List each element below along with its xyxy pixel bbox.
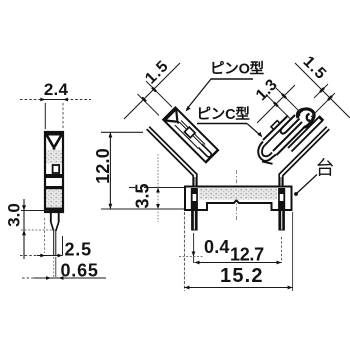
dim 3.0 extension at body bottom [21, 210, 50, 212]
right 1.5 extension lines [314, 84, 328, 98]
O-pin tail slot [198, 144, 212, 158]
pin body lower light section [46, 190, 62, 208]
pin body band 2 [45, 186, 64, 189]
O-pin latch box [184, 127, 195, 138]
pin body V notch [45, 133, 64, 136]
C-pin hook [258, 142, 276, 161]
right terminal inside body [278, 188, 285, 210]
body outline [185, 187, 292, 211]
O-pin internal channel lines [175, 125, 198, 148]
pin lower square section [50, 213, 52, 222]
svg-text:0.65: 0.65 [61, 261, 99, 281]
pin body band 1 [45, 174, 64, 178]
dim 12.0 extension bottom [101, 208, 185, 210]
svg-text:2.4: 2.4 [44, 80, 69, 99]
right 1.5 arrows [320, 88, 324, 92]
body edge dashed extensions down [44, 218, 46, 253]
C-pin neck U [281, 115, 300, 134]
dim 15.2 line [184, 287, 292, 289]
dim 3.5 extension top [144, 187, 184, 189]
svg-text:12.0: 12.0 [93, 148, 113, 184]
svg-text:0.4: 0.4 [204, 237, 230, 257]
dim 3.5 line (dotted, extends above) [157, 154, 159, 222]
left terminal inside body [191, 188, 198, 210]
left arm (outlined strip, bends 45deg up-left) [147, 129, 194, 187]
dim 2.4 arrows [40, 98, 45, 102]
blade inserted at top right [288, 117, 319, 148]
C-pin latch box [271, 121, 280, 130]
dim 3.0 line [23, 199, 25, 259]
svg-text:12.7: 12.7 [230, 245, 264, 265]
svg-text:2.5: 2.5 [65, 240, 92, 260]
svg-text:ピンC型: ピンC型 [197, 105, 251, 123]
left leg [191, 210, 198, 231]
svg-text:3.5: 3.5 [133, 183, 153, 208]
svg-text:15.2: 15.2 [220, 265, 264, 287]
1.3 dim line [257, 85, 295, 123]
svg-text:3.0: 3.0 [5, 203, 24, 227]
dim 3.0 extension dashed at taper [21, 229, 57, 231]
pin body small latch feature [53, 165, 60, 173]
O-pin mouth V notch [165, 116, 176, 127]
left 1.5: dim line [124, 63, 180, 119]
centerline [236, 170, 238, 220]
dim 12.0 line [109, 132, 111, 209]
O-pin tail end cap [206, 150, 218, 162]
right 1.5: dim line [295, 63, 350, 118]
C-pin upper wall outer edge [263, 116, 288, 141]
dim 0.4 arrow [192, 252, 196, 257]
12.7 extension verticals [193, 233, 195, 263]
right arm neck dark fill [280, 177, 283, 187]
pin body gray section [46, 150, 62, 164]
C-pin lower wall [273, 122, 302, 151]
pin body outline [45, 132, 63, 212]
pin needle [53, 231, 55, 255]
1.3 extension lines [266, 95, 290, 119]
dim 12.0 extension top [101, 131, 143, 133]
dim 2.5 line [20, 255, 37, 257]
C-pin upper wall inner edge [265, 117, 294, 146]
left 1.5 extension lines [138, 94, 160, 116]
dim 2.4 line [20, 99, 91, 101]
2.4 extension lines [44, 103, 46, 129]
C-pin curl [298, 109, 315, 127]
body stipple band [199, 188, 277, 200]
15.2 extension verticals [183, 212, 185, 291]
dim 12.7 line [195, 262, 282, 264]
dim 0.65 extensions [53, 257, 55, 277]
svg-text:台: 台 [316, 157, 335, 179]
dim 0.65 line [22, 277, 34, 279]
pin taper [51, 222, 54, 231]
O-pin mouth band [163, 107, 177, 121]
left arm neck dark fill [194, 177, 197, 187]
left 1.5 arrows [142, 98, 146, 102]
dim 0.4 dashed ref [179, 256, 203, 258]
right arm [283, 129, 330, 187]
right leg [278, 210, 285, 231]
svg-text:ピンO型: ピンO型 [210, 60, 265, 78]
O-pin body outline [163, 107, 218, 162]
pin body bottom bar [45, 208, 64, 214]
1.3 arrows [274, 102, 278, 106]
